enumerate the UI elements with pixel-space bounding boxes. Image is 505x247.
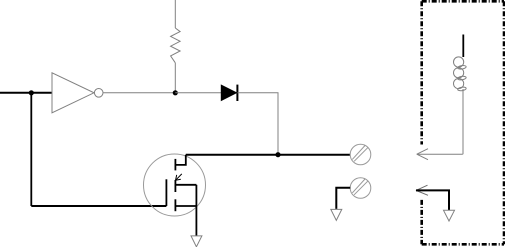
ground in dashed box — [444, 210, 455, 221]
transistor Q1 gate bar — [165, 179, 167, 206]
transistor Q1 source stub — [174, 199, 176, 211]
transistor Q1 drain step — [175, 155, 185, 165]
node input junction — [29, 90, 34, 95]
wire drain to pad P1 — [186, 154, 350, 156]
wire resistor top lead — [174, 0, 176, 28]
wire source down to ground — [195, 185, 197, 236]
wire pad P2 to ground — [336, 188, 350, 209]
transistor Q1 body arrow — [176, 174, 182, 180]
pad P2 — [350, 178, 371, 199]
ground under pad P2 wire — [331, 209, 342, 220]
wire lower arrow to ground — [416, 190, 449, 210]
wire gate horizontal — [31, 205, 166, 207]
transistor Q1 body horizontal — [175, 184, 196, 186]
diode D1 — [221, 85, 237, 101]
wire inductor bottom lead — [462, 89, 464, 154]
wire inverter output to node — [103, 92, 175, 94]
arrow lower barbs — [416, 185, 428, 195]
wire diode cathode right then down — [237, 93, 278, 155]
transistor Q1 drain stub — [174, 159, 176, 171]
inductor L1 coil — [454, 57, 467, 91]
arrow upper (inductor net exit) — [417, 149, 463, 160]
node drain junction — [275, 152, 280, 157]
transistor Q1 source horizontal — [175, 205, 196, 207]
resistor R1 — [171, 28, 181, 63]
wire input left — [0, 92, 52, 94]
inductor L1 top lead — [462, 35, 464, 58]
dashed boundary box — [422, 1, 504, 244]
wire vertical from junction down — [30, 93, 32, 206]
node resistor junction — [173, 90, 178, 95]
transistor Q1 body circle — [144, 154, 206, 216]
wire node to diode anode — [175, 92, 221, 94]
pad P1 — [350, 144, 371, 165]
inverter U1 — [52, 73, 103, 113]
ground under Q1 — [191, 236, 202, 247]
transistor Q1 body stub — [174, 180, 176, 192]
wire resistor bottom lead — [174, 63, 176, 93]
